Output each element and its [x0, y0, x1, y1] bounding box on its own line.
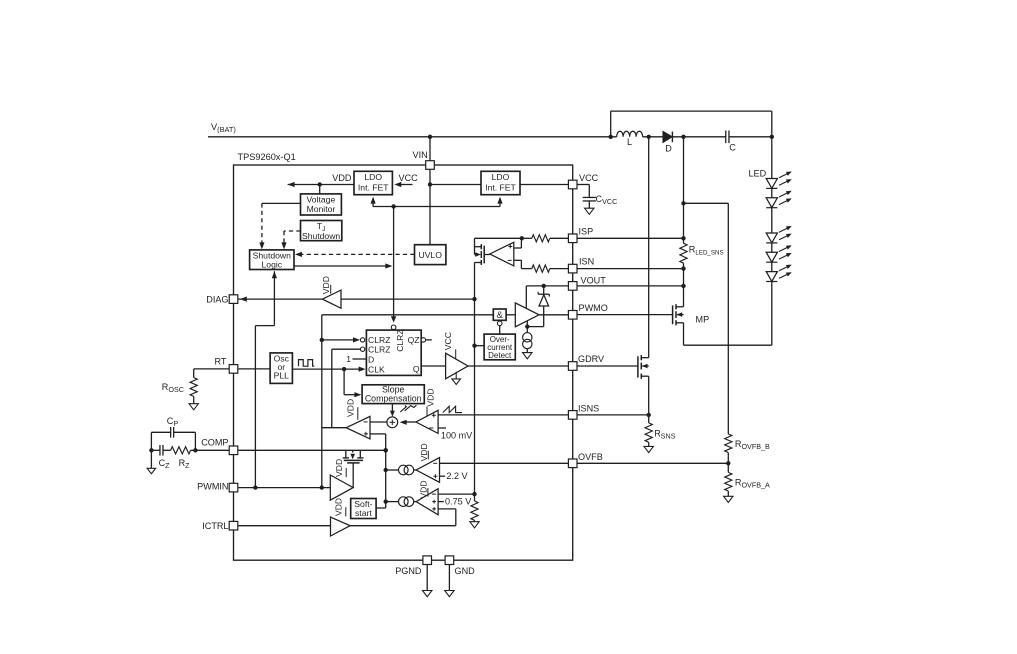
svg-text:CLRZ: CLRZ — [395, 329, 405, 351]
svg-text:VDD: VDD — [346, 399, 356, 417]
svg-text:Q: Q — [413, 364, 420, 374]
svg-text:VDD: VDD — [333, 498, 343, 516]
svg-text:Logic: Logic — [262, 260, 283, 270]
svg-text:D: D — [368, 354, 374, 364]
svg-text:VCC: VCC — [579, 173, 599, 183]
svg-text:ISN: ISN — [579, 257, 594, 267]
svg-text:Int. FET: Int. FET — [358, 182, 389, 192]
svg-text:COMP: COMP — [201, 438, 228, 448]
svg-text:VDD: VDD — [332, 173, 352, 183]
svg-text:DIAG: DIAG — [206, 295, 228, 305]
svg-text:L: L — [627, 137, 632, 147]
svg-text:Voltage: Voltage — [307, 194, 336, 204]
svg-text:VOUT: VOUT — [581, 275, 607, 285]
svg-text:VDD: VDD — [419, 480, 429, 498]
svg-text:C: C — [729, 143, 736, 153]
svg-text:PWMIN: PWMIN — [197, 482, 228, 492]
svg-text:GDRV: GDRV — [578, 354, 605, 364]
svg-text:VDD: VDD — [425, 388, 435, 406]
svg-text:CLK: CLK — [368, 364, 385, 374]
svg-text:RT: RT — [215, 356, 227, 366]
svg-text:Detect: Detect — [488, 351, 512, 360]
svg-text:MP: MP — [696, 314, 710, 324]
svg-text:LDO: LDO — [492, 172, 510, 182]
svg-text:VDD: VDD — [321, 276, 331, 294]
svg-text:LDO: LDO — [364, 172, 382, 182]
svg-text:Shutdown: Shutdown — [302, 231, 340, 241]
svg-text:PGND: PGND — [395, 566, 422, 576]
svg-text:GND: GND — [455, 566, 476, 576]
svg-text:OVFB: OVFB — [578, 452, 603, 462]
svg-text:ISNS: ISNS — [578, 404, 599, 414]
svg-text:ICTRL: ICTRL — [202, 521, 228, 531]
svg-text:2.2 V: 2.2 V — [446, 471, 468, 481]
svg-text:&: & — [497, 310, 503, 320]
svg-text:UVLO: UVLO — [418, 250, 442, 260]
svg-text:VCC: VCC — [399, 173, 419, 183]
svg-text:VDD: VDD — [419, 443, 429, 461]
svg-text:ISP: ISP — [579, 227, 594, 237]
svg-text:start: start — [355, 508, 372, 518]
svg-text:100 mV: 100 mV — [441, 430, 473, 440]
svg-text:VDD: VDD — [334, 459, 344, 477]
svg-text:LED: LED — [749, 169, 767, 179]
svg-text:D: D — [665, 144, 672, 154]
svg-text:PWMO: PWMO — [579, 303, 608, 313]
svg-text:CLRZ: CLRZ — [368, 345, 390, 355]
svg-text:Compensation: Compensation — [365, 393, 422, 403]
svg-text:VIN: VIN — [413, 150, 428, 160]
svg-text:TPS9260x-Q1: TPS9260x-Q1 — [238, 152, 296, 162]
svg-text:VCC: VCC — [443, 332, 453, 350]
svg-text:QZ: QZ — [408, 335, 420, 345]
svg-text:Int. FET: Int. FET — [485, 182, 516, 192]
svg-text:0.75 V: 0.75 V — [445, 497, 472, 507]
svg-text:1: 1 — [346, 354, 351, 364]
svg-text:PLL: PLL — [274, 371, 290, 381]
svg-text:Monitor: Monitor — [307, 204, 336, 214]
